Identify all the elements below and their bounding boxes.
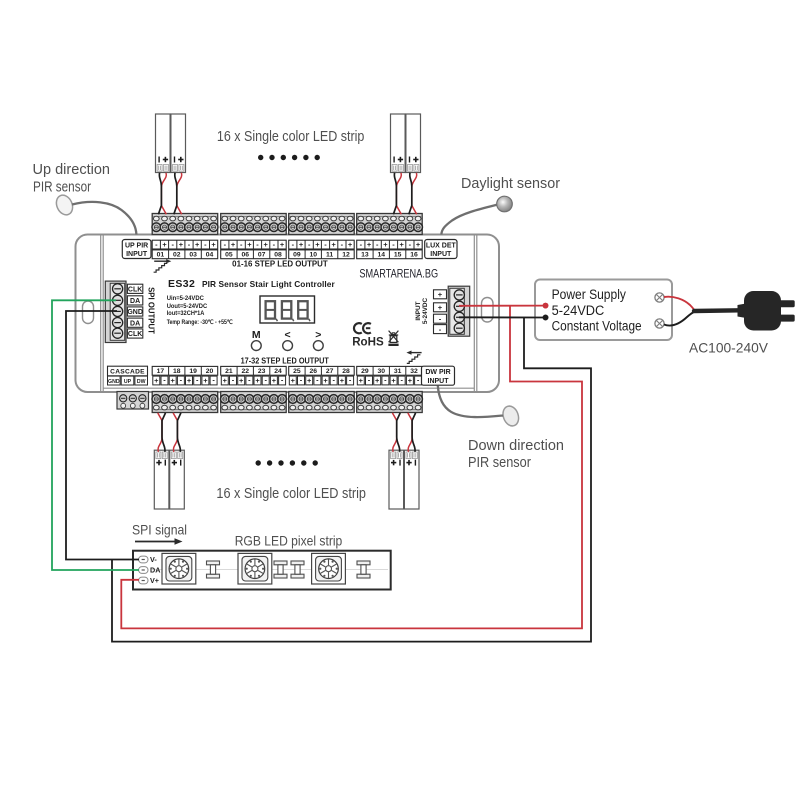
label 17-32 STEP LED OUTPUT bbox=[241, 357, 329, 366]
UP PIR INPUT label box bbox=[122, 240, 151, 259]
terminal strip top group 1 (outputs 01-04) bbox=[152, 214, 218, 235]
svg-text:INPUT: INPUT bbox=[428, 378, 450, 385]
wire: green SPI DA from controller to RGB strip bbox=[52, 300, 139, 570]
svg-text:16: 16 bbox=[410, 252, 418, 259]
svg-text:24: 24 bbox=[274, 368, 282, 375]
svg-text:01-16 STEP LED OUTPUT: 01-16 STEP LED OUTPUT bbox=[232, 259, 328, 268]
svg-text:GND: GND bbox=[108, 379, 120, 385]
svg-text:+: + bbox=[255, 376, 260, 385]
strip component C3 bbox=[291, 561, 304, 578]
label: 16 x Single color LED strip (top) bbox=[217, 129, 365, 145]
output number cells 01-04 bbox=[152, 250, 218, 259]
svg-text:10: 10 bbox=[310, 252, 318, 259]
wire: red AC lead bbox=[664, 297, 695, 311]
svg-text:18: 18 bbox=[173, 368, 181, 375]
svg-text:+: + bbox=[272, 376, 277, 385]
svg-text:+: + bbox=[211, 240, 216, 249]
svg-text:RGB LED pixel strip: RGB LED pixel strip bbox=[235, 534, 343, 549]
RoHS mark bbox=[352, 336, 384, 349]
cascade terminal block bbox=[117, 392, 149, 410]
svg-text:INPUT: INPUT bbox=[430, 251, 452, 258]
power supply DC - node (redraw over wire) bbox=[543, 315, 549, 321]
svg-text:+: + bbox=[187, 376, 192, 385]
output number cells 25-28 bbox=[289, 366, 355, 375]
svg-text:+: + bbox=[203, 376, 208, 385]
svg-text:INPUT: INPUT bbox=[415, 301, 422, 320]
strip component C4 bbox=[357, 561, 370, 578]
svg-text:09: 09 bbox=[293, 252, 301, 259]
svg-text:CLK: CLK bbox=[128, 331, 142, 338]
WEEE crossed-out bin icon bbox=[388, 331, 398, 345]
svg-text:SPI OUTPUT: SPI OUTPUT bbox=[147, 287, 156, 334]
svg-text:30: 30 bbox=[378, 368, 386, 375]
svg-text:+: + bbox=[171, 376, 176, 385]
output number cells 13-16 bbox=[357, 250, 423, 259]
mounting slot right bbox=[482, 298, 494, 323]
svg-text:Daylight sensor: Daylight sensor bbox=[461, 176, 560, 192]
svg-text:+: + bbox=[239, 376, 244, 385]
polarity cells bottom group 3 bbox=[289, 376, 353, 385]
svg-text:UP: UP bbox=[124, 379, 132, 385]
svg-text:RoHS: RoHS bbox=[352, 336, 384, 349]
svg-text:+: + bbox=[247, 240, 252, 249]
power supply box bbox=[535, 280, 672, 341]
label AC100-240V bbox=[689, 340, 769, 356]
svg-text:<: < bbox=[285, 329, 291, 341]
Up PIR sensor head bbox=[53, 193, 75, 218]
wires: bottom LED strips to outputs bbox=[158, 413, 416, 452]
polarity cells top group 1 bbox=[152, 240, 218, 249]
svg-text:SPI signal: SPI signal bbox=[132, 523, 187, 538]
wire: black SPI GND from controller to RGB strip V- bbox=[66, 311, 139, 560]
strip component C1 bbox=[207, 561, 220, 578]
svg-text:32: 32 bbox=[410, 368, 418, 375]
svg-text:+: + bbox=[340, 376, 345, 385]
CASCADE label box bbox=[108, 366, 148, 385]
svg-text:16 x Single color LED strip: 16 x Single color LED strip bbox=[217, 129, 365, 145]
wire: down PIR sensor to controller bbox=[438, 386, 503, 418]
power supply DC + node (redraw over wire) bbox=[543, 303, 549, 309]
svg-text:28: 28 bbox=[342, 368, 350, 375]
svg-text:+: + bbox=[299, 240, 304, 249]
wire: black GND power loop bbox=[112, 317, 591, 641]
SPI pin labels CLK DA GND DA CLK bbox=[127, 284, 143, 338]
svg-text:UP PIR: UP PIR bbox=[125, 243, 148, 250]
INPUT 5-24VDC vertical label bbox=[415, 297, 429, 324]
terminal strip top group 3 (outputs 09-12) bbox=[288, 214, 354, 235]
svg-text:Up direction: Up direction bbox=[33, 162, 111, 178]
DW PIR INPUT label box bbox=[422, 366, 455, 385]
svg-text:CASCADE: CASCADE bbox=[110, 369, 145, 376]
polarity cells bottom group 1 bbox=[153, 376, 217, 385]
wire: daylight sensor to controller bbox=[441, 205, 496, 235]
svg-text:V+: V+ bbox=[150, 576, 159, 585]
svg-text:+: + bbox=[383, 240, 388, 249]
svg-text:12: 12 bbox=[342, 252, 350, 259]
power input labels + + - - bbox=[434, 290, 447, 334]
RGB LED chip 2 bbox=[238, 553, 272, 584]
power input terminal block bbox=[448, 286, 470, 336]
svg-text:17-32 STEP LED OUTPUT: 17-32 STEP LED OUTPUT bbox=[241, 357, 329, 366]
svg-text:+: + bbox=[375, 376, 380, 385]
svg-text:DA: DA bbox=[130, 298, 140, 305]
label: 16 x Single color LED strip (bottom) bbox=[216, 486, 366, 502]
svg-text:+: + bbox=[348, 240, 353, 249]
terminal strip bottom group 2 (outputs 21-24) bbox=[220, 392, 286, 413]
svg-text:5-24VDC: 5-24VDC bbox=[552, 303, 605, 318]
RGB strip connector pads V- DA V+ bbox=[139, 555, 161, 585]
svg-text:Iout=32CH*1A: Iout=32CH*1A bbox=[167, 310, 205, 317]
terminal strip bottom group 4 (outputs 29-32) bbox=[356, 392, 422, 413]
LED strip top 4 bbox=[406, 114, 421, 173]
svg-text:SMARTARENA.BG: SMARTARENA.BG bbox=[359, 268, 438, 280]
svg-text:23: 23 bbox=[258, 368, 266, 375]
polarity cells top group 4 bbox=[357, 240, 423, 249]
svg-text:08: 08 bbox=[274, 252, 282, 259]
CE mark bbox=[354, 323, 371, 333]
svg-text:Uout=5-24VDC: Uout=5-24VDC bbox=[167, 303, 208, 310]
svg-text:+: + bbox=[359, 376, 364, 385]
wire: red from controller power input + to power supply bbox=[459, 305, 546, 307]
svg-text:DA: DA bbox=[150, 566, 160, 575]
svg-text:29: 29 bbox=[361, 368, 369, 375]
svg-text:Down direction: Down direction bbox=[468, 438, 564, 454]
svg-text:Temp Range: -30℃ - +55℃: Temp Range: -30℃ - +55℃ bbox=[167, 319, 233, 326]
output number cells 17-20 bbox=[152, 366, 218, 375]
svg-text:+: + bbox=[438, 290, 443, 299]
polarity cells top group 3 bbox=[289, 240, 355, 249]
svg-text:+: + bbox=[179, 240, 184, 249]
label 01-16 STEP LED OUTPUT bbox=[232, 259, 328, 268]
terminal strip bottom group 3 (outputs 25-28) bbox=[288, 392, 354, 413]
svg-text:+: + bbox=[367, 240, 372, 249]
daylight sensor head bbox=[497, 196, 513, 212]
svg-text:+: + bbox=[416, 240, 421, 249]
svg-text:02: 02 bbox=[173, 252, 181, 259]
controller ES32 body bbox=[76, 235, 500, 393]
svg-text:17: 17 bbox=[157, 368, 165, 375]
svg-text:PIR sensor: PIR sensor bbox=[468, 455, 531, 471]
svg-text:14: 14 bbox=[378, 252, 386, 259]
svg-text:GND: GND bbox=[127, 309, 143, 316]
svg-text:+: + bbox=[154, 376, 159, 385]
svg-text:DW PIR: DW PIR bbox=[425, 369, 450, 376]
title ES32 PIR Sensor Stair Light Controller bbox=[168, 278, 336, 290]
output number cells 05-08 bbox=[221, 250, 287, 259]
svg-text:DA: DA bbox=[130, 320, 140, 327]
mains plug bbox=[738, 291, 795, 331]
wire: up PIR sensor to controller bbox=[72, 202, 136, 235]
SPI OUTPUT terminal block bbox=[105, 281, 126, 342]
svg-text:+: + bbox=[323, 376, 328, 385]
stair down icon bbox=[406, 351, 421, 364]
power supply DC - node bbox=[543, 315, 549, 321]
svg-text:27: 27 bbox=[326, 368, 334, 375]
svg-text:+: + bbox=[291, 376, 296, 385]
ellipsis dots top bbox=[258, 155, 320, 160]
output number cells 21-24 bbox=[221, 366, 287, 375]
terminal strip bottom group 1 (outputs 17-20) bbox=[152, 392, 218, 413]
stair up icon bbox=[154, 259, 172, 272]
svg-text:+: + bbox=[223, 376, 228, 385]
svg-text:16 x Single color LED strip: 16 x Single color LED strip bbox=[216, 486, 366, 502]
wire: black from controller power input - to power supply bbox=[459, 316, 546, 318]
Down direction PIR sensor label bbox=[468, 438, 564, 471]
LED strip bottom 2 bbox=[170, 450, 185, 509]
LED strip top 2 bbox=[171, 114, 186, 173]
LED strip bottom 3 bbox=[389, 450, 404, 509]
svg-text:>: > bbox=[315, 329, 321, 341]
svg-text:+: + bbox=[332, 240, 337, 249]
svg-text:DW: DW bbox=[137, 379, 146, 385]
svg-text:PIR sensor: PIR sensor bbox=[33, 180, 91, 196]
RGB LED pixel strip board bbox=[133, 551, 391, 590]
watermark SMARTARENA.BG bbox=[359, 268, 438, 280]
spec text lines bbox=[167, 295, 233, 326]
down PIR sensor head bbox=[500, 404, 521, 428]
svg-text:5-24VDC: 5-24VDC bbox=[422, 297, 429, 324]
svg-text:03: 03 bbox=[189, 252, 197, 259]
svg-text:CLK: CLK bbox=[128, 286, 142, 293]
svg-text:M: M bbox=[252, 329, 261, 341]
RGB LED chip 1 bbox=[162, 553, 196, 584]
svg-text:04: 04 bbox=[206, 252, 214, 259]
svg-text:19: 19 bbox=[189, 368, 197, 375]
svg-text:22: 22 bbox=[242, 368, 250, 375]
svg-text:07: 07 bbox=[258, 252, 266, 259]
svg-text:20: 20 bbox=[206, 368, 214, 375]
svg-text:+: + bbox=[315, 240, 320, 249]
svg-text:+: + bbox=[307, 376, 312, 385]
svg-text:+: + bbox=[391, 376, 396, 385]
svg-text:25: 25 bbox=[293, 368, 301, 375]
power cord bbox=[694, 308, 740, 313]
svg-text:V-: V- bbox=[150, 555, 157, 564]
polarity cells bottom group 4 bbox=[357, 376, 421, 385]
LED strip bottom 4 bbox=[404, 450, 419, 509]
svg-text:+: + bbox=[231, 240, 236, 249]
RGB LED chip 3 bbox=[312, 553, 346, 584]
svg-text:+: + bbox=[408, 376, 413, 385]
RGB LED pixel strip label bbox=[235, 534, 343, 549]
svg-text:+: + bbox=[400, 240, 405, 249]
svg-text:ES32: ES32 bbox=[168, 278, 195, 290]
SPI signal label bbox=[132, 523, 187, 538]
7-segment display U1 bbox=[260, 296, 315, 323]
svg-text:Power Supply: Power Supply bbox=[552, 287, 627, 302]
LED strip top 1 bbox=[156, 114, 171, 173]
power supply AC terminal L bbox=[655, 293, 664, 302]
output number cells 09-12 bbox=[289, 250, 355, 259]
power supply AC terminal N bbox=[655, 319, 664, 328]
svg-text:+: + bbox=[438, 303, 443, 312]
terminal strip top group 4 (outputs 13-16) bbox=[356, 214, 422, 235]
svg-text:LUX DET: LUX DET bbox=[426, 243, 457, 250]
svg-text:31: 31 bbox=[394, 368, 402, 375]
SPI OUTPUT vertical label bbox=[147, 287, 156, 334]
Up direction PIR sensor label bbox=[33, 162, 111, 196]
svg-text:26: 26 bbox=[310, 368, 318, 375]
Daylight sensor label bbox=[461, 176, 560, 192]
wires: top LED strips to outputs bbox=[158, 173, 416, 215]
svg-text:PIR Sensor Stair Light Control: PIR Sensor Stair Light Controller bbox=[202, 279, 336, 289]
svg-text:01: 01 bbox=[157, 252, 165, 259]
SPI signal arrow bbox=[135, 538, 183, 544]
svg-text:Constant Voltage: Constant Voltage bbox=[552, 319, 642, 334]
svg-text:+: + bbox=[162, 240, 167, 249]
terminal strip top group 2 (outputs 05-08) bbox=[220, 214, 286, 235]
svg-text:+: + bbox=[264, 240, 269, 249]
buttons M < > bbox=[251, 329, 323, 350]
svg-text:06: 06 bbox=[242, 252, 250, 259]
svg-text:+: + bbox=[280, 240, 285, 249]
ellipsis dots bottom bbox=[256, 460, 318, 465]
svg-text:11: 11 bbox=[326, 252, 333, 259]
polarity cells bottom group 2 bbox=[221, 376, 285, 385]
wire: red V+ power loop to RGB strip bbox=[121, 306, 582, 629]
LED strip bottom 1 bbox=[154, 450, 169, 509]
svg-text:INPUT: INPUT bbox=[126, 251, 148, 258]
svg-text:+: + bbox=[195, 240, 200, 249]
svg-text:13: 13 bbox=[361, 252, 369, 259]
mounting slot left bbox=[83, 301, 94, 324]
power supply DC + node bbox=[543, 303, 549, 309]
svg-text:15: 15 bbox=[394, 252, 402, 259]
svg-text:AC100-240V: AC100-240V bbox=[689, 340, 769, 356]
svg-text:21: 21 bbox=[225, 368, 233, 375]
polarity cells top group 2 bbox=[221, 240, 287, 249]
strip component C2 bbox=[274, 561, 287, 578]
wire: black AC lead bbox=[664, 312, 695, 326]
output number cells 29-32 bbox=[357, 366, 423, 375]
LED strip top 3 bbox=[391, 114, 406, 173]
svg-text:05: 05 bbox=[225, 252, 233, 259]
LUX DET INPUT label box bbox=[425, 240, 457, 259]
svg-text:Uin=5-24VDC: Uin=5-24VDC bbox=[167, 295, 205, 302]
